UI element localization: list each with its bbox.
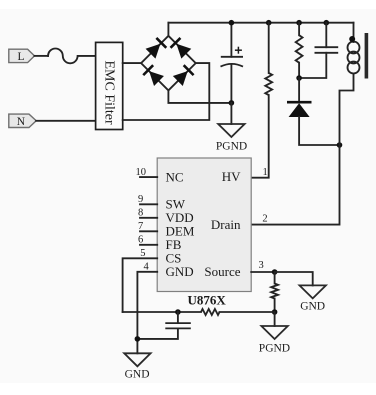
- svg-text:GND: GND: [125, 369, 150, 381]
- resistor R4 (CS filter): [201, 309, 220, 315]
- node sense bottom: [272, 309, 278, 315]
- bridge diode D4 (right-bottom): [173, 65, 194, 86]
- node HV rail: [266, 20, 272, 26]
- svg-text:5: 5: [140, 248, 145, 259]
- svg-text:4: 4: [144, 262, 150, 273]
- svg-text:Source: Source: [204, 264, 240, 279]
- bridge rectifier diamond: [141, 36, 196, 91]
- node snubber RC junction: [296, 75, 302, 81]
- diode D5 (clamp, cathode up): [287, 102, 312, 117]
- svg-text:Drain: Drain: [211, 217, 241, 232]
- svg-text:PGND: PGND: [259, 343, 290, 355]
- wire sense resistor to bottom node: [274, 299, 276, 313]
- pin 4 GND wire: [137, 272, 157, 354]
- resistor R1 (HV startup): [265, 73, 272, 95]
- bridge diode D1 (left-top): [146, 38, 167, 59]
- wire clamp diode to drain node: [299, 117, 339, 145]
- svg-text:GND: GND: [166, 264, 194, 279]
- svg-text:9: 9: [138, 194, 143, 205]
- PGND symbol (primary ground): [218, 124, 244, 137]
- pin 7 stub: [140, 230, 157, 232]
- svg-text:L: L: [18, 51, 25, 63]
- wire rail to HV resistor: [268, 23, 270, 73]
- resistor R2 (snubber): [296, 35, 303, 63]
- wire drain node to Drain pin 2: [251, 145, 339, 225]
- node CS cap: [175, 309, 181, 315]
- wire source to GND symbol: [275, 272, 313, 285]
- transformer polarity dot: [349, 36, 355, 42]
- wire EMC to bridge left corner: [123, 62, 141, 64]
- svg-text:2: 2: [262, 213, 267, 224]
- wire node to clamp diode: [298, 78, 300, 101]
- wire node to PGND symbol: [230, 103, 232, 124]
- node GND net: [135, 336, 141, 342]
- wire bridge right corner to N line: [123, 63, 210, 120]
- bridge diode D2 (right-top): [171, 38, 192, 59]
- wire L tag to fuse: [35, 55, 49, 57]
- svg-text:NC: NC: [166, 170, 184, 185]
- DC+ top rail: [168, 22, 353, 24]
- wire source node to sense resistor: [274, 272, 276, 284]
- svg-text:U876X: U876X: [188, 293, 227, 308]
- svg-text:HV: HV: [222, 169, 241, 184]
- transformer core: [365, 33, 369, 79]
- svg-text:EMC Filter: EMC Filter: [102, 61, 117, 126]
- svg-text:PGND: PGND: [216, 141, 247, 153]
- pin 5 CS wire: [123, 258, 158, 312]
- wire resistor to sense node: [220, 311, 275, 313]
- GND symbol (right): [300, 285, 326, 298]
- svg-text:7: 7: [138, 221, 143, 232]
- EMC Filter block: [96, 42, 123, 129]
- svg-text:8: 8: [138, 208, 143, 219]
- terminal L tag: [9, 49, 35, 63]
- transformer T1 primary winding: [340, 23, 360, 145]
- node snubber cap rail: [324, 20, 330, 26]
- capacitor C2 (snubber): [299, 23, 338, 78]
- pin 8 stub: [140, 217, 157, 219]
- bridge diode D3 (left-bottom): [143, 65, 164, 86]
- terminal N tag: [9, 114, 36, 128]
- pin 9 stub: [140, 203, 157, 205]
- wire bridge top to DC+ rail: [167, 23, 169, 36]
- wire rail to snubber resistor: [298, 23, 300, 36]
- bulk capacitor C1 (polarized): [221, 23, 244, 103]
- node source: [272, 269, 278, 275]
- pin 3 Source wire: [251, 271, 274, 273]
- svg-text:N: N: [17, 116, 26, 128]
- CS net bottom wire: [123, 311, 201, 313]
- capacitor C3 (CS filter): [137, 312, 190, 339]
- svg-text:GND: GND: [300, 301, 325, 313]
- node snubber resistor rail: [296, 20, 302, 26]
- wire bridge bottom to PGND node: [168, 90, 231, 103]
- svg-text:1: 1: [263, 167, 268, 178]
- svg-text:3: 3: [259, 260, 264, 271]
- fuse F1: [48, 49, 96, 64]
- svg-text:10: 10: [136, 167, 147, 178]
- pin 6 stub: [140, 244, 157, 246]
- wire N tag to EMC filter: [36, 120, 95, 122]
- wire resistor to HV pin 1: [251, 95, 269, 178]
- IC U1 body: [157, 158, 251, 292]
- PGND symbol (bottom): [261, 326, 287, 339]
- node: bridge- / C1- / PGND: [229, 100, 235, 106]
- svg-text:6: 6: [138, 235, 143, 246]
- GND symbol (bottom left): [124, 353, 150, 366]
- pin 10 stub: [140, 176, 157, 178]
- resistor R3 (current sense): [271, 284, 278, 299]
- wire snubber resistor to clamp node: [298, 63, 300, 78]
- node drain / transformer: [337, 142, 343, 148]
- wire node to PGND symbol: [274, 312, 276, 326]
